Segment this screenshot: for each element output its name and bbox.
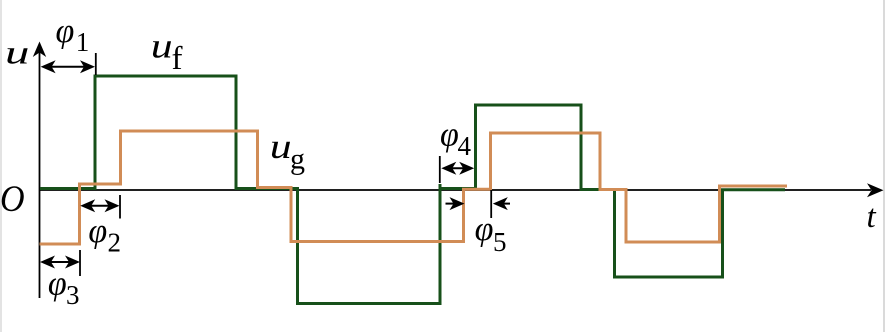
right edge faint line <box>883 0 885 332</box>
svg-text:φ: φ <box>440 117 459 154</box>
svg-text:1: 1 <box>76 27 90 57</box>
svg-text:φ: φ <box>88 213 107 250</box>
svg-text:3: 3 <box>66 280 80 310</box>
waveform u_f (green) <box>40 76 785 304</box>
tick at green rise x=95 (phi1) <box>95 53 97 75</box>
phi3 measure arrow <box>40 256 80 269</box>
svg-text:φ: φ <box>56 13 75 50</box>
left edge faint line <box>0 0 2 332</box>
t axis arrowhead <box>867 183 884 197</box>
svg-text:g: g <box>290 143 305 176</box>
svg-text:u: u <box>5 35 29 71</box>
svg-text:O: O <box>0 178 25 220</box>
green overshoot spur at x=440 <box>439 184 442 190</box>
u axis arrowhead <box>33 42 46 58</box>
svg-text:φ: φ <box>48 266 67 303</box>
waveform u_g (orange) <box>40 131 788 244</box>
u axis (vertical, extends below origin) <box>39 44 41 298</box>
phi2 measure arrow <box>80 199 119 212</box>
tick at orange rise x=80 (phi3) <box>79 250 81 276</box>
phi1 measure arrow <box>41 60 95 73</box>
tick at green rise x=440 (phi4) <box>439 156 441 183</box>
phi5 right arrow (points left) <box>493 197 510 210</box>
svg-text:u: u <box>151 27 173 66</box>
phi4 measure arrow <box>441 162 474 175</box>
svg-text:4: 4 <box>458 131 472 161</box>
svg-text:f: f <box>172 41 183 77</box>
svg-text:u: u <box>270 127 292 166</box>
tick at orange rise x=120 (phi2) <box>119 195 121 219</box>
svg-text:t: t <box>867 199 877 235</box>
svg-text:2: 2 <box>108 228 122 258</box>
t axis (horizontal) <box>40 189 872 191</box>
phi5 left arrow (points right) <box>446 197 465 210</box>
tick at orange rise x=491 (phi5) <box>490 190 492 218</box>
svg-text:5: 5 <box>493 227 507 257</box>
svg-text:φ: φ <box>475 211 494 248</box>
